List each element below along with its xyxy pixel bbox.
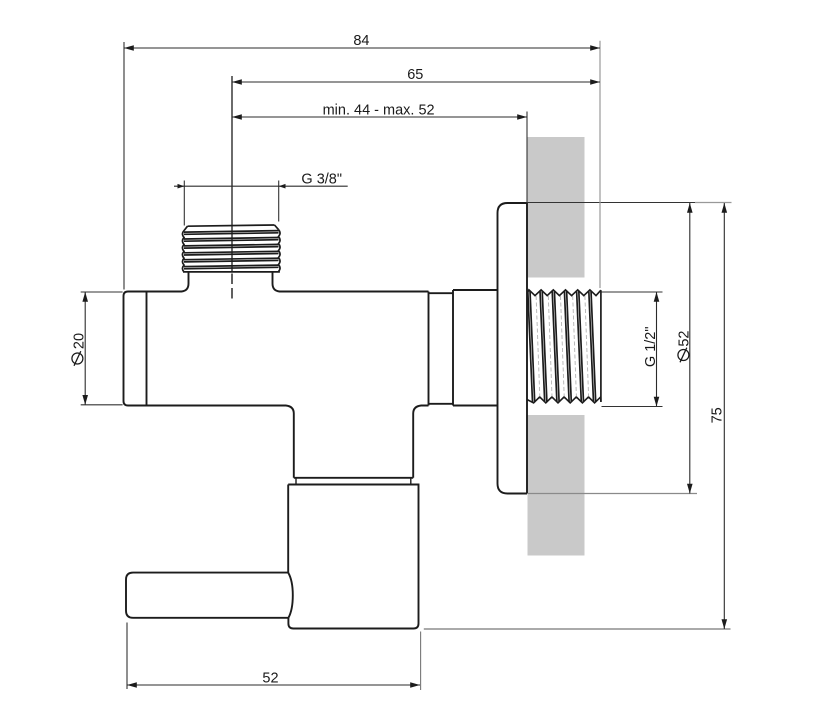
dimension line min 44 - max 52 [232,116,527,118]
arrowhead dim dia20 top [82,292,88,302]
dimension dia 52 label [676,331,692,363]
svg-text:G 3/8": G 3/8" [301,172,342,188]
arrowhead dim 75 top [722,203,728,213]
extension line left of dim 52 [126,623,128,690]
collar segment [453,290,498,406]
svg-text:52: 52 [262,670,278,686]
dimension line 75 [723,203,725,629]
arrowhead dim G1/2 top [654,292,660,302]
ring segment [429,293,454,404]
handle/body intersection bulge [288,573,293,618]
extension line left of dim 84 [123,42,125,290]
dimension line 65 [232,81,600,83]
arrowhead dim 75 bottom [722,619,728,629]
arrowhead dim 84 left [124,45,134,51]
extension line top of G 1/2 [602,291,663,293]
thread G 1/2 (right, vertical ridges) [527,290,601,403]
arrowhead dim G3/8 left [178,184,185,189]
dimension line dia 52 [689,203,691,494]
extension line right of dim 52 [420,632,422,691]
extension line bottom of dia 20 [81,404,123,406]
dimension line G 3/8 [174,185,348,187]
bottom block [288,485,418,629]
svg-text:G 1/2": G 1/2" [643,326,659,367]
arrowhead dim 65 left [232,79,242,85]
arrowhead dim dia52 top [687,203,693,213]
arrowhead dim 65 right [590,79,600,85]
wall section lower (gray) [528,415,585,556]
extension line bottom of G 1/2 [602,406,663,408]
dimension dia 20 label [72,333,88,366]
svg-text:20: 20 [72,333,88,349]
arrowhead dim dia52 bottom [687,484,693,494]
handle [126,573,288,618]
dimension line G 1/2 [656,292,658,407]
arrowhead dim min-max right [517,114,527,120]
barrel top edge with neck fillets [147,272,189,291]
arrowhead dim G1/2 bottom [654,397,660,407]
arrowhead dim 84 right [590,45,600,51]
extension line bottom of dim 75 [424,628,731,630]
svg-text:75: 75 [710,407,726,423]
center line of top thread [231,76,233,299]
extension line flange bottom (dia 52) [528,493,697,495]
wall section upper (gray) [528,137,585,278]
arrowhead dim G3/8 right [279,184,286,189]
extension line flange top gray tail [695,202,732,204]
valve body outline [124,203,528,629]
flange [498,203,528,494]
extension line flange top (dia 52 / 75) [527,202,695,204]
leg seam [294,477,413,479]
svg-text:65: 65 [407,67,423,83]
extension line left of thread G3/8 [183,181,185,226]
dimension line 52 [127,684,420,686]
thread G 3/8 (top, horizontal ridges) [182,225,280,272]
extension line right of dims 84 and 65 [599,41,601,288]
svg-text:min. 44 - max. 52: min. 44 - max. 52 [323,103,435,119]
barrel bottom edge with leg fillets [147,406,294,478]
svg-text:52: 52 [676,331,692,347]
left end cap [124,292,147,406]
arrowhead dim min-max left [232,114,242,120]
extension line wall face (dim min-max) [526,112,528,204]
arrowhead dim 52 left [127,682,137,688]
barrel right cap line [428,292,430,406]
svg-text:84: 84 [353,33,369,49]
dimension line 84 [124,47,600,49]
extension line top of dia 20 [81,291,123,293]
extension line right of thread G3/8 [278,181,280,222]
arrowhead dim 52 right [410,682,420,688]
dimension line dia 20 [84,292,86,405]
arrowhead dim dia20 bottom [82,395,88,405]
